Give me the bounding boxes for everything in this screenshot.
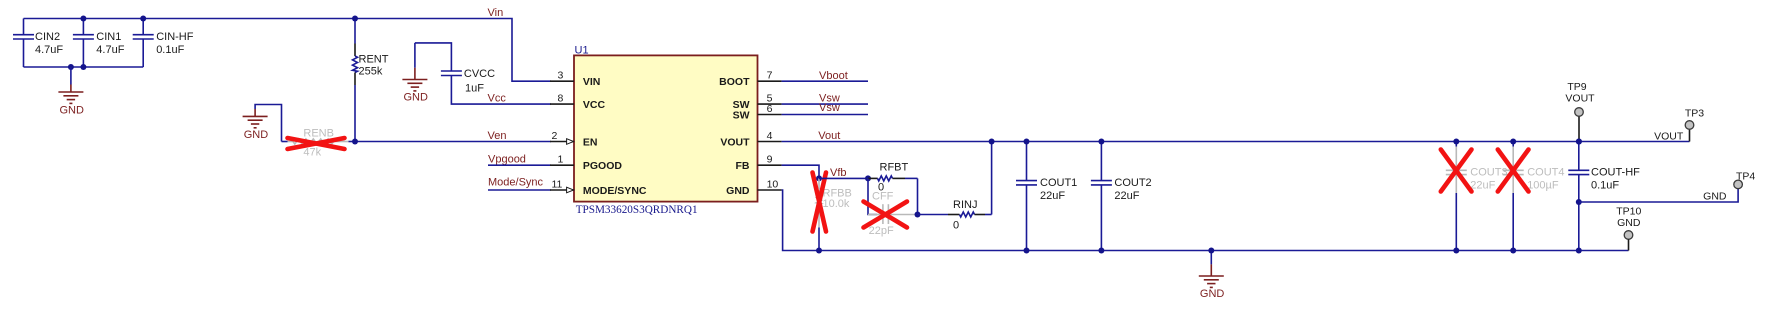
wire Vfb node down to CFF xyxy=(868,178,877,214)
svg-text:VOUT: VOUT xyxy=(720,137,750,149)
svg-text:0.1uF: 0.1uF xyxy=(1591,179,1619,191)
svg-text:8: 8 xyxy=(558,93,564,105)
wire gnd tap to TP4 xyxy=(1579,189,1738,202)
ground RENB GND xyxy=(243,105,282,142)
capacitor CIN2 xyxy=(13,19,63,68)
svg-text:RENT: RENT xyxy=(359,54,389,66)
node RFBB bottom xyxy=(816,248,822,254)
test point TP10 GND xyxy=(1616,206,1641,251)
svg-text:22uF: 22uF xyxy=(1114,190,1139,202)
pin 8 VCC xyxy=(550,103,574,105)
svg-text:VOUT: VOUT xyxy=(1654,131,1684,143)
svg-text:FB: FB xyxy=(736,160,750,172)
wire Ven to EN pin xyxy=(355,141,551,143)
svg-text:11: 11 xyxy=(552,179,563,191)
pin 9 FB xyxy=(758,164,782,166)
svg-text:0.1uF: 0.1uF xyxy=(156,44,184,56)
X-out mark over RENB xyxy=(288,138,345,149)
svg-text:4.7uF: 4.7uF xyxy=(96,44,124,56)
capacitor COUT3 22uF (ghosted) xyxy=(1446,142,1508,251)
svg-text:CIN-HF: CIN-HF xyxy=(156,31,194,43)
svg-text:10: 10 xyxy=(767,179,779,191)
svg-text:SW: SW xyxy=(733,110,750,122)
svg-text:GND: GND xyxy=(60,105,85,117)
pin 7 BOOT xyxy=(758,80,782,82)
svg-text:4: 4 xyxy=(767,130,773,142)
svg-text:100µF: 100µF xyxy=(1527,179,1559,191)
ground CVCC GND xyxy=(402,43,428,104)
pin 4 VOUT xyxy=(758,141,782,143)
svg-text:1uF: 1uF xyxy=(465,83,484,95)
svg-text:GND: GND xyxy=(1703,191,1727,203)
node Vin rail junction xyxy=(352,16,358,22)
wire FB to Vfb node xyxy=(782,165,819,178)
svg-text:3: 3 xyxy=(558,70,564,82)
svg-text:9: 9 xyxy=(767,154,773,166)
resistor RENT 255k xyxy=(353,19,389,142)
ground input GND xyxy=(58,67,84,117)
capacitor CVCC 1uF xyxy=(415,43,551,104)
svg-text:CIN2: CIN2 xyxy=(35,31,60,43)
capacitor CIN-HF xyxy=(133,19,194,68)
X-out mark over COUT4 xyxy=(1498,150,1529,192)
X-out mark over RFBB xyxy=(813,173,827,232)
svg-text:CIN1: CIN1 xyxy=(96,31,121,43)
wire Vout rail xyxy=(782,141,1690,143)
svg-text:GND: GND xyxy=(1200,288,1225,300)
svg-text:U1: U1 xyxy=(575,45,589,57)
svg-text:Vsw: Vsw xyxy=(819,102,840,114)
node TP9-Vout rail xyxy=(1576,139,1582,145)
node COUT-HF gnd tap xyxy=(1576,199,1582,205)
node RFBT left xyxy=(865,175,871,181)
svg-text:GND: GND xyxy=(1617,217,1641,229)
svg-text:10.0k: 10.0k xyxy=(823,198,850,210)
pin 5 SW xyxy=(758,103,782,105)
svg-text:TP9: TP9 xyxy=(1567,81,1586,93)
node EN junction xyxy=(352,139,358,145)
wire Mode/Sync stub xyxy=(488,189,551,191)
wire Vsw stub pin6 xyxy=(782,114,868,116)
svg-text:Vout: Vout xyxy=(818,130,840,142)
svg-text:Vcc: Vcc xyxy=(488,92,507,104)
pin 11 MODE/SYNC xyxy=(550,189,574,191)
test point TP4 GND xyxy=(1703,170,1755,202)
op-amp U1 TPSM33620S3QRDNRQ1 block xyxy=(574,45,758,217)
svg-text:TP10: TP10 xyxy=(1616,206,1641,218)
svg-text:47k: 47k xyxy=(303,147,321,159)
ground output GND xyxy=(1199,251,1225,300)
pin 3 VIN xyxy=(550,80,574,82)
svg-text:4.7uF: 4.7uF xyxy=(35,44,63,56)
wire Vin top rail xyxy=(24,19,552,82)
node dots input rails xyxy=(80,16,86,22)
svg-text:GND: GND xyxy=(726,185,750,197)
wire input cap bottom rail xyxy=(24,66,144,68)
wire RINJ up to Vout rail xyxy=(991,142,993,215)
svg-text:VIN: VIN xyxy=(583,76,601,88)
svg-text:Vin: Vin xyxy=(488,7,504,19)
resistor RFBT 0 xyxy=(868,161,918,193)
svg-text:COUT2: COUT2 xyxy=(1114,177,1151,189)
svg-text:EN: EN xyxy=(583,137,598,149)
svg-text:BOOT: BOOT xyxy=(719,76,750,88)
pin 1 PGOOD xyxy=(550,164,574,166)
svg-text:RINJ: RINJ xyxy=(953,199,977,211)
X-out mark over CFF xyxy=(864,202,908,228)
wire Vfb node to RFBT xyxy=(819,177,870,179)
capacitor CFF 22pF (ghosted) xyxy=(868,191,918,237)
svg-text:Vboot: Vboot xyxy=(819,70,848,82)
svg-text:Mode/Sync: Mode/Sync xyxy=(488,177,544,189)
pin 10 GND xyxy=(758,189,782,191)
wire GND bottom rail xyxy=(782,190,1629,251)
svg-text:RFBT: RFBT xyxy=(880,161,909,173)
pin 6 SW xyxy=(758,114,782,116)
resistor RFBB 10.0k (ghosted) xyxy=(817,178,852,250)
node Vfb xyxy=(816,175,822,181)
svg-text:7: 7 xyxy=(767,70,773,82)
svg-text:RENB: RENB xyxy=(303,128,334,140)
wire Vpgood stub xyxy=(488,164,551,166)
capacitor COUT-HF 0.1uF xyxy=(1568,142,1640,251)
svg-text:255k: 255k xyxy=(359,66,383,78)
svg-text:COUT4: COUT4 xyxy=(1527,167,1564,179)
svg-text:Ven: Ven xyxy=(488,130,507,142)
capacitor COUT2 22uF xyxy=(1091,142,1152,251)
wire Vboot stub xyxy=(782,80,868,82)
svg-text:GND: GND xyxy=(404,92,429,104)
svg-text:COUT1: COUT1 xyxy=(1040,177,1077,189)
svg-text:22uF: 22uF xyxy=(1040,190,1065,202)
svg-text:2: 2 xyxy=(552,130,558,142)
resistor RINJ 0 xyxy=(918,199,992,231)
svg-text:0: 0 xyxy=(953,219,959,231)
wire Vsw stub pin5 xyxy=(782,103,868,105)
svg-text:CFF: CFF xyxy=(872,191,894,203)
pin 2 EN xyxy=(550,141,574,143)
svg-text:22uF: 22uF xyxy=(1470,179,1495,191)
test point TP9 VOUT xyxy=(1565,81,1595,142)
svg-text:TP3: TP3 xyxy=(1685,107,1704,119)
svg-text:Vpgood: Vpgood xyxy=(488,154,526,166)
node RINJ-Vout xyxy=(989,139,995,145)
svg-text:VCC: VCC xyxy=(583,99,606,111)
svg-text:22pF: 22pF xyxy=(869,225,894,237)
svg-text:GND: GND xyxy=(244,129,269,141)
capacitor COUT4 100uF (ghosted) xyxy=(1503,142,1565,251)
svg-text:Vfb: Vfb xyxy=(830,167,847,179)
svg-text:TPSM33620S3QRDNRQ1: TPSM33620S3QRDNRQ1 xyxy=(576,204,698,216)
svg-text:1: 1 xyxy=(558,154,564,166)
wire RFBT right down to CFF row xyxy=(917,178,919,214)
svg-text:COUT3: COUT3 xyxy=(1470,167,1507,179)
svg-text:COUT-HF: COUT-HF xyxy=(1591,167,1640,179)
svg-text:MODE/SYNC: MODE/SYNC xyxy=(583,185,647,197)
test point TP3 VOUT xyxy=(1654,107,1704,142)
svg-text:CVCC: CVCC xyxy=(464,68,495,80)
X-out mark over COUT3 xyxy=(1441,150,1472,192)
node CFF right xyxy=(915,212,921,218)
svg-text:VOUT: VOUT xyxy=(1565,92,1595,104)
capacitor COUT1 22uF xyxy=(1016,142,1077,251)
svg-text:PGOOD: PGOOD xyxy=(583,160,623,172)
svg-text:6: 6 xyxy=(767,103,773,115)
resistor RENB 47k (ghosted) xyxy=(282,128,356,159)
capacitor CIN1 xyxy=(73,19,125,68)
